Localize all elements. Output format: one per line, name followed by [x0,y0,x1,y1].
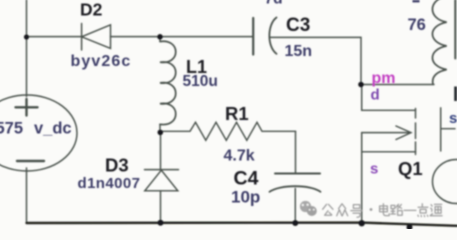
voltage source V1 [0,95,77,171]
glyph zhong [337,204,348,216]
junction C4 ground [292,220,298,226]
glyph lu [391,204,402,215]
wire V1 bottom lead [26,168,28,223]
wire C4 to ground rail [294,189,296,224]
svg-text:s: s [449,110,457,127]
capacitor C4 [270,174,321,192]
svg-text:D2: D2 [80,0,103,19]
glyph dian2 [380,204,390,216]
svg-text:C3: C3 [286,15,310,36]
junction node pm [358,82,364,88]
wire transformer right lead [454,0,456,59]
glyph tong [430,204,442,215]
diode D3 [145,170,179,191]
svg-text:4.7k: 4.7k [224,148,255,165]
svg-text:pm: pm [372,70,396,87]
resistor R1 [161,122,296,140]
watermark logo [300,201,317,216]
svg-text:575: 575 [0,120,23,138]
svg-text:7d: 7d [265,0,283,8]
glyph remnant right edge [454,87,457,102]
transistor Q1 channel segment 1 [415,109,417,119]
capacitor C3 [253,18,276,55]
svg-text:byv26c: byv26c [71,53,132,70]
watermark text drawn glyphs [323,204,443,217]
transistor Q1 drain lead [362,85,416,111]
junction L1 top [157,34,163,40]
svg-text:v_dc: v_dc [34,120,72,138]
wire gate bar right [441,108,455,151]
glyph gong [323,204,333,215]
junction D3 ground [158,220,164,226]
wire L1 to D3 [160,133,162,170]
voltage source V2 circle right [433,160,457,204]
transistor Q1 channel segment 2 [415,123,417,139]
glyph remnant above 76 [413,0,420,2]
svg-text:R1: R1 [225,103,249,124]
transistor Q1 channel segment 3 [415,142,417,155]
svg-text:10p: 10p [231,188,260,207]
wire C3 to drain corner [271,37,362,84]
wire V1 top lead [26,37,28,97]
diode D2 [82,24,111,51]
transistor Q1 source stub [362,151,416,153]
wire Q1 source to ground rail [361,133,363,224]
inductor L1 [160,37,176,133]
middot [370,208,373,211]
svg-text:C4: C4 [234,168,259,190]
svg-text:15n: 15n [285,43,313,60]
junction top left [24,34,29,39]
wire R1 to C4 [295,131,297,173]
transistor Q1 body arrow [362,126,411,140]
wire D2 to C3 [111,36,254,38]
junction Q1 ground [359,220,365,226]
svg-text:510u: 510u [183,73,218,90]
inductor L2 transformer winding [432,0,446,84]
wire left vertical top [26,0,28,37]
glyph yi [404,209,416,211]
svg-text:D3: D3 [105,155,129,176]
svg-text:Q1: Q1 [398,158,423,179]
junction L1 bottom [158,130,164,136]
junction right ground [407,224,413,230]
glyph hao [351,205,362,218]
glyph dian3 [418,204,428,217]
svg-text:d1n4007: d1n4007 [78,175,141,192]
svg-text:s: s [370,161,378,178]
wire node pm to transformer [361,84,434,86]
wire D3 to ground rail [160,191,162,223]
svg-text:d: d [371,87,380,104]
wire top horizontal left to D2 [27,36,82,38]
ground rail [27,223,457,226]
svg-text:76: 76 [408,16,426,34]
